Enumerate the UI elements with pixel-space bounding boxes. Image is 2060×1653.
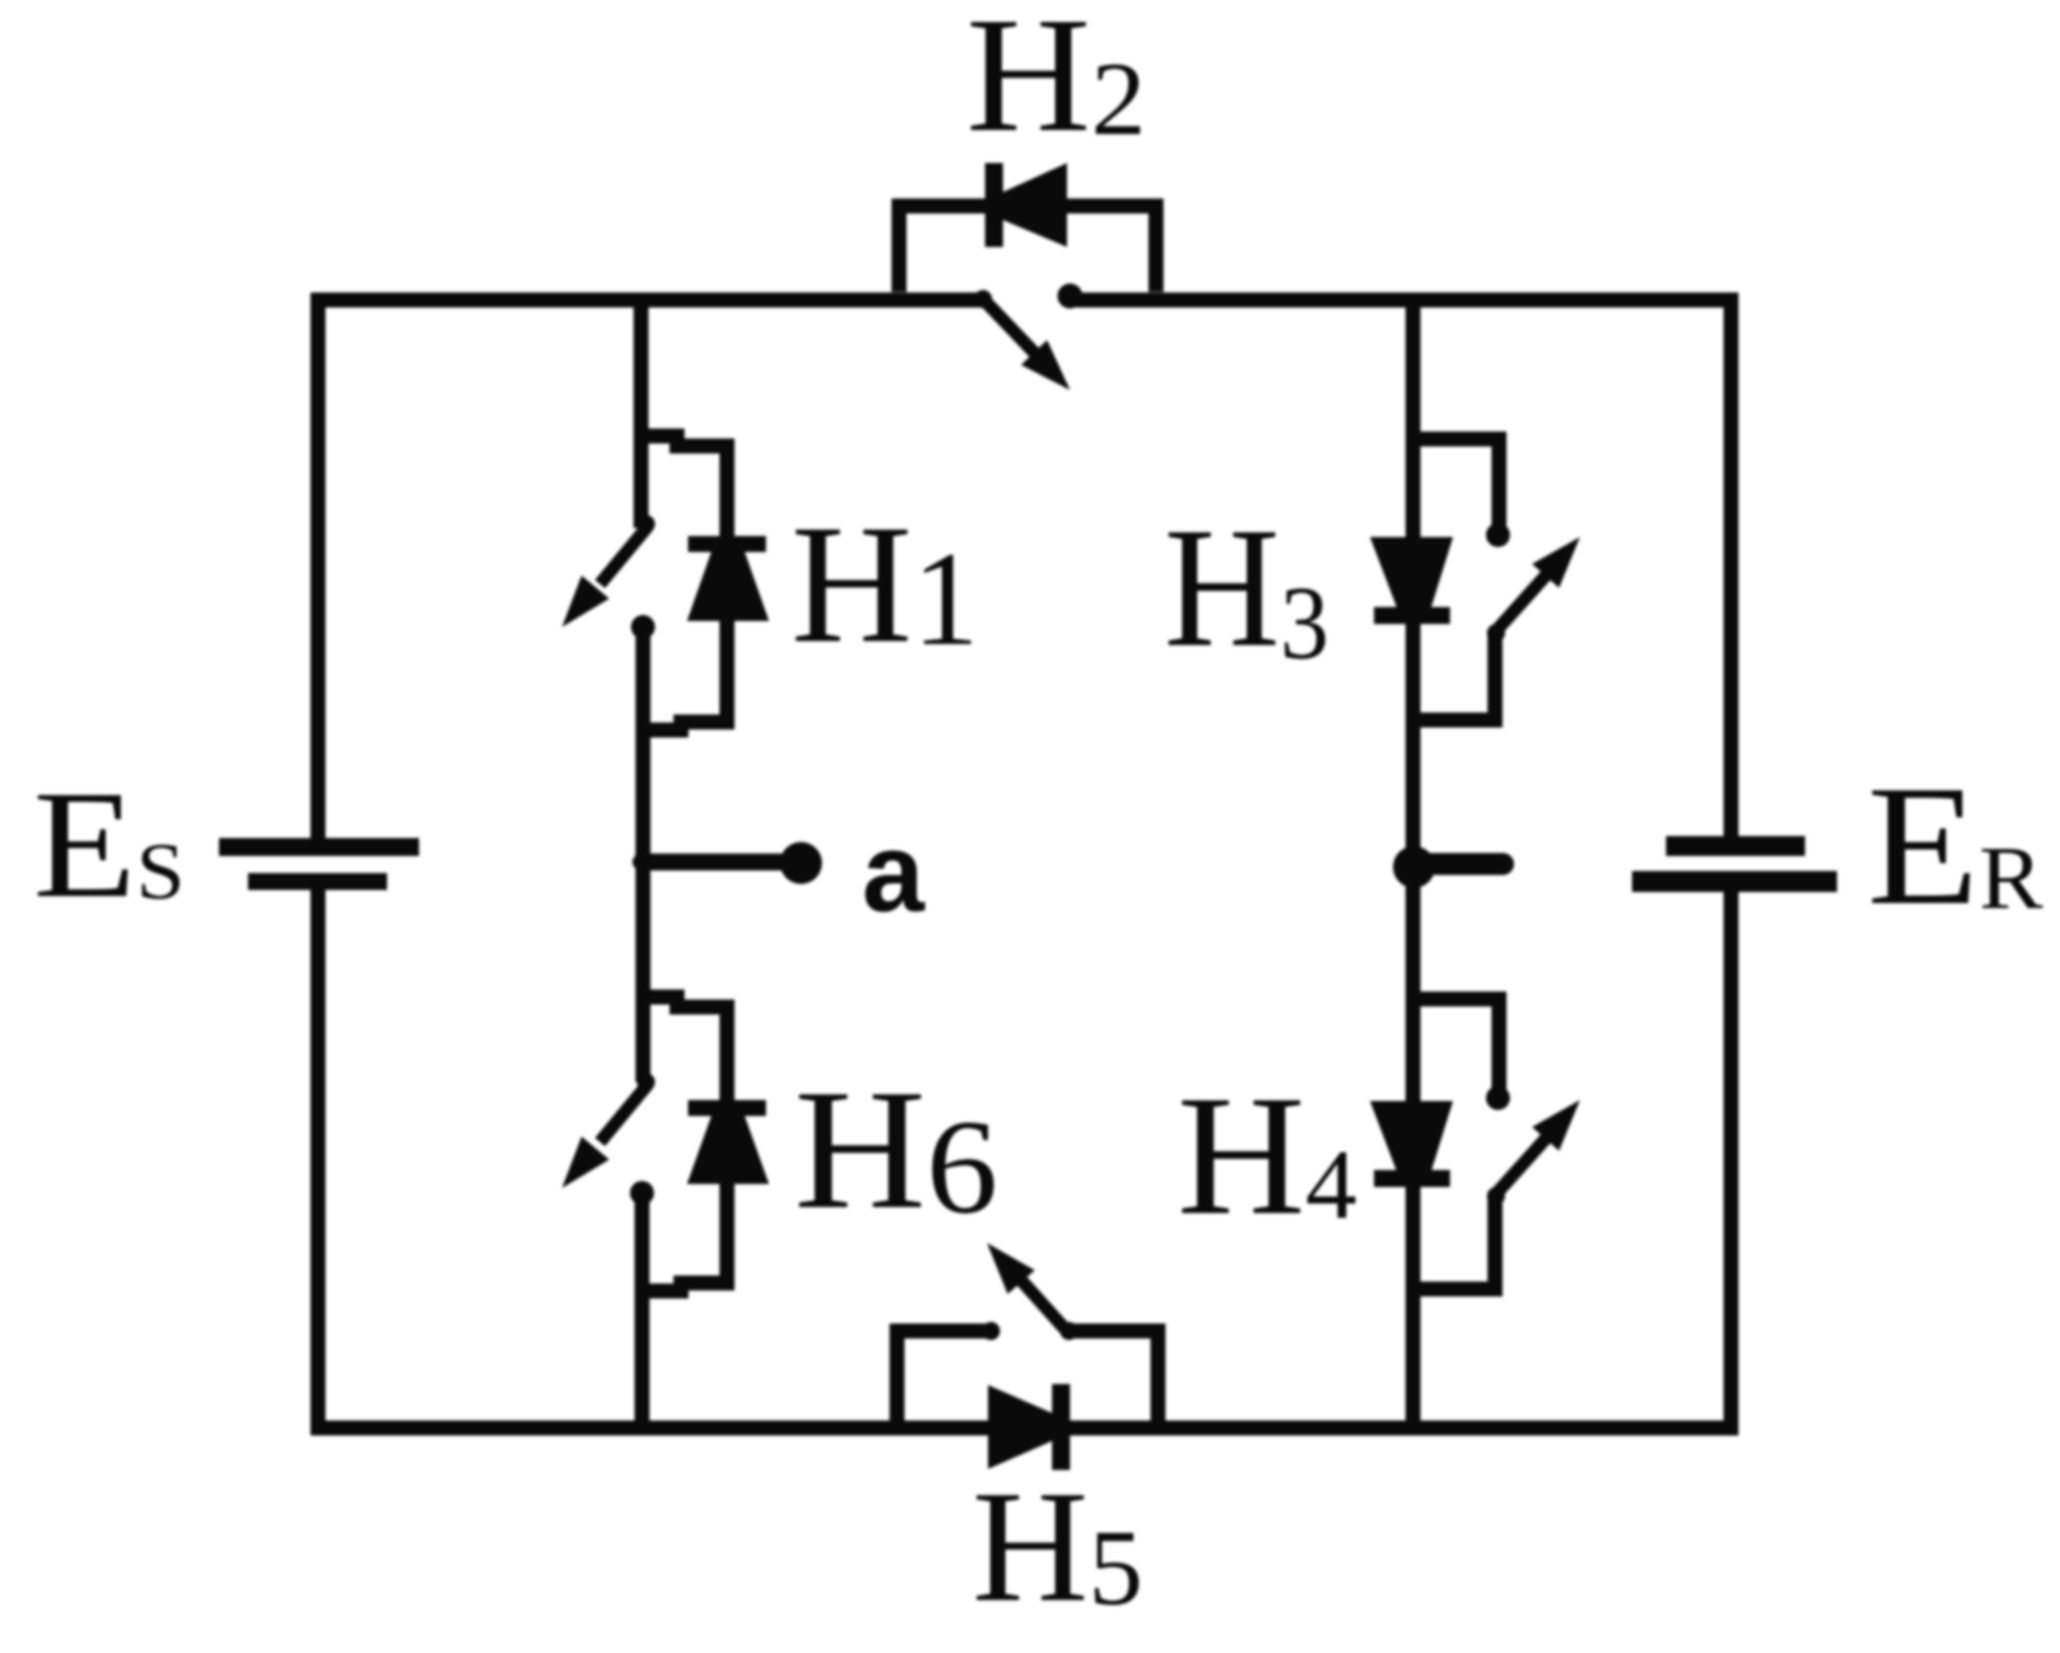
switch H6	[548, 1073, 655, 1205]
switch H3 (parallel branch)	[1413, 439, 1593, 720]
svg-text:H1: H1	[791, 490, 979, 678]
wire right vertical lower	[1724, 890, 1739, 1436]
diode H2 (bypass loop)	[899, 163, 1156, 292]
svg-text:H5: H5	[972, 1457, 1143, 1635]
svg-text:ES: ES	[33, 760, 185, 930]
diode H4 (in branch)	[1370, 1101, 1453, 1187]
svg-text:H3: H3	[1164, 493, 1329, 683]
wire inner-left vertical middle	[636, 627, 651, 1082]
wire top-left segment	[311, 293, 986, 308]
wire left vertical lower	[311, 888, 326, 1436]
svg-text:H2: H2	[966, 0, 1146, 166]
diode H1 (parallel branch)	[641, 436, 769, 730]
diode H3 (in branch)	[1370, 537, 1453, 624]
wire left vertical upper	[311, 293, 326, 841]
svg-text:a: a	[862, 810, 925, 935]
svg-text:H6: H6	[794, 1055, 998, 1245]
battery ES	[219, 838, 419, 890]
svg-text:H4: H4	[1177, 1061, 1357, 1251]
wire inner-right vertical	[1406, 293, 1421, 1436]
wire bottom	[311, 1421, 1739, 1436]
node a	[641, 842, 822, 884]
diode H6 (parallel branch)	[641, 997, 769, 1291]
battery ER	[1632, 836, 1837, 892]
wire right vertical upper	[1724, 293, 1739, 839]
wire top-right segment	[1071, 293, 1739, 308]
switch H5 (bypass loop)	[897, 1231, 1158, 1435]
wire inner-left vertical lower	[635, 1193, 650, 1436]
node (right branch midpoint junction)	[1393, 846, 1503, 888]
diode H5 (in bottom wire)	[988, 1384, 1070, 1470]
switch H1	[548, 515, 655, 639]
switch H2 (in top wire)	[974, 284, 1083, 403]
svg-text:ER: ER	[1867, 751, 2043, 941]
switch H4 (parallel branch)	[1413, 999, 1593, 1289]
wire inner-left vertical upper	[634, 293, 649, 529]
